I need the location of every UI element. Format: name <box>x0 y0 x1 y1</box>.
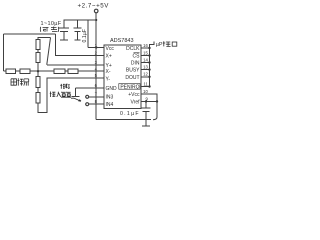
junction dots <box>37 19 158 103</box>
svg-text:Vcc: Vcc <box>106 46 115 52</box>
glyph 可 (kexuan) <box>43 28 49 32</box>
svg-text:12: 12 <box>143 72 148 77</box>
pin number 1 <box>95 43 149 104</box>
wire X+ down and to pin2 <box>56 34 105 56</box>
glyph 摸 (chumoping) <box>17 78 23 85</box>
wire pin9 Vref lead <box>141 101 157 103</box>
glyph 输 (shuru tongdao) <box>50 92 56 98</box>
glyph 接 (uP interface) <box>163 41 171 46</box>
node IN3 input terminal <box>86 95 89 98</box>
wire pin11 lead <box>141 86 150 88</box>
resistor R6 <box>36 53 40 63</box>
op-amp U1 ADS7843 box <box>104 45 141 108</box>
wire decoupling rail top <box>64 19 97 21</box>
glyph 入 (shuru tongdao) <box>57 92 61 97</box>
wire pin1 Vcc lead <box>88 47 104 49</box>
wire pin16 lead <box>141 47 150 49</box>
wire pin12 lead <box>141 76 150 78</box>
wire R6 to center node <box>37 63 39 72</box>
node bus dot 13 <box>148 68 150 70</box>
wire center to R7 <box>37 71 39 77</box>
resistor R2 <box>20 69 30 73</box>
svg-text:+2.7~+5V: +2.7~+5V <box>78 2 110 9</box>
ground bar for pin6 <box>72 95 80 97</box>
glyph 口 (uP interface) <box>172 42 177 46</box>
svg-text:Vref: Vref <box>131 99 141 105</box>
wire pin13 lead <box>141 69 150 71</box>
touch screen loop top edge <box>4 33 56 35</box>
node bus dot 15 <box>148 54 150 56</box>
svg-text:GND: GND <box>106 86 118 92</box>
wire right bus vertical <box>150 41 154 86</box>
glyph 通 (shuru tongdao) <box>61 92 66 97</box>
pin label Vcc <box>106 46 141 108</box>
svg-text:BUSY: BUSY <box>126 68 140 74</box>
glyph 道 (shuru tongdao) <box>66 92 71 97</box>
node bus dot 12 <box>148 76 150 78</box>
svg-text:16: 16 <box>143 43 148 48</box>
svg-text:15: 15 <box>143 50 148 55</box>
wire X chain row to pin4 <box>4 70 105 72</box>
svg-text:+Vcc: +Vcc <box>128 92 140 98</box>
wire bottom supply rail <box>96 119 151 121</box>
wire pin15 lead <box>141 55 150 57</box>
glyph 屏 (chumoping) <box>24 79 29 86</box>
resistor R4 <box>68 69 78 73</box>
ground bar below C3 <box>142 125 150 127</box>
wire Y- route chain bottom around to pin5 <box>38 78 104 113</box>
svg-text:X+: X+ <box>106 53 112 59</box>
wire rail branch down to pin1 <box>87 20 89 48</box>
node bus dot 11 <box>148 85 150 87</box>
svg-text:ADS7843: ADS7843 <box>110 38 134 44</box>
arrow to IN3 IN4 <box>71 98 81 101</box>
svg-text:1~10µF: 1~10µF <box>41 21 62 27</box>
wire GND pin6 to ground <box>76 88 105 96</box>
node pin1 junction <box>95 46 97 48</box>
svg-text:IN4: IN4 <box>106 102 114 108</box>
svg-text:X-: X- <box>106 69 111 75</box>
resistor R3 <box>54 69 65 73</box>
overline CS <box>134 52 140 54</box>
node rail junction <box>95 19 97 21</box>
wire between R5 R6 <box>37 50 39 53</box>
touch screen loop left edge <box>3 34 5 71</box>
node center touch point <box>37 70 39 72</box>
resistor R1 <box>6 69 16 73</box>
wire supply vertical from terminal down to pin1 row and bottom rail <box>95 13 97 120</box>
capacitor C3 plates <box>142 108 151 112</box>
svg-text:DOUT: DOUT <box>125 75 139 81</box>
svg-text:13: 13 <box>143 64 148 69</box>
wire Y+ jog from chain top to pin3 <box>38 38 51 40</box>
node +2.7~+5V supply terminal <box>94 9 98 13</box>
svg-text:11: 11 <box>143 81 148 86</box>
node bus dot 16 <box>148 47 150 49</box>
svg-text:IN3: IN3 <box>106 95 114 101</box>
svg-text:0.1µF: 0.1µF <box>82 29 88 42</box>
wire pin14 lead <box>141 62 150 64</box>
node cap C3 tap <box>145 100 147 102</box>
glyph 触 (chumoping) <box>11 79 17 85</box>
node bus dot 14 <box>148 61 150 63</box>
paren left kexuan <box>39 27 42 32</box>
wire pin10 hook to bottom rail <box>153 117 157 120</box>
overline PENIRQ <box>119 84 140 90</box>
glyph 选 (kexuan) <box>51 27 58 32</box>
node IN4 input terminal <box>86 103 89 106</box>
svg-text:Y+: Y+ <box>106 63 112 69</box>
wire IN3 to pin7 <box>89 96 104 98</box>
svg-text:µP: µP <box>156 42 163 48</box>
capacitor C3 bottom lead <box>145 112 147 126</box>
capacitor C1 1~10uF <box>59 20 69 40</box>
svg-text:10: 10 <box>143 89 148 94</box>
glyph 助 (fuzhu) <box>66 84 70 88</box>
svg-text:Y-: Y- <box>106 76 111 82</box>
node pin10 pin9 junction <box>156 100 158 102</box>
wire IN4 to pin8 <box>89 103 104 105</box>
svg-text:CS: CS <box>133 53 141 59</box>
wire between R7 R8 <box>37 88 39 93</box>
resistor R8 <box>36 93 40 104</box>
svg-text:DIN: DIN <box>131 60 140 66</box>
paren right kexuan <box>57 27 60 32</box>
resistor R7 <box>36 77 40 88</box>
resistor R5 <box>36 40 40 50</box>
svg-text:14: 14 <box>143 57 148 62</box>
capacitor C3 0.1uF lead <box>145 102 147 108</box>
capacitor C2 0.1uF <box>74 20 82 40</box>
svg-text:0.1µF: 0.1µF <box>120 111 140 117</box>
glyph 辅 (fuzhu) <box>60 84 65 89</box>
wire pin10 +Vcc jog <box>141 94 157 117</box>
svg-text:DCLK: DCLK <box>126 46 140 52</box>
